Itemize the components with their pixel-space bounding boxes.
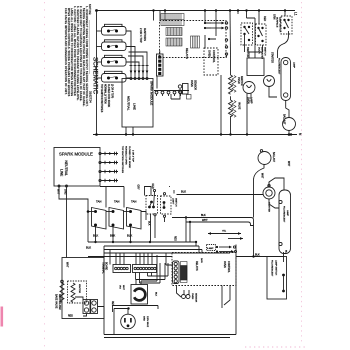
oven sensor RT1 <box>171 75 221 135</box>
wire risers from switch boxes <box>146 214 165 242</box>
wires oven switch to lamp <box>245 11 263 59</box>
pink registration right <box>301 2 303 345</box>
spark gap arrows <box>130 63 149 77</box>
ignitor switch S4 <box>97 71 127 82</box>
node N left <box>95 133 98 136</box>
wire bus stack <box>104 242 230 265</box>
ignitor switch S1 <box>97 24 127 35</box>
terminal strip 1 <box>113 265 131 273</box>
starter (bottom) <box>263 187 275 199</box>
label TAN 3 <box>131 200 136 204</box>
pink edge mark <box>1 307 4 327</box>
wires switches to spark gaps <box>126 31 147 78</box>
label BLK 2 <box>110 234 115 238</box>
spark module bottom pins <box>58 185 60 187</box>
label GRN <box>273 14 276 20</box>
surface lamp switch S7 <box>281 16 292 34</box>
spark module U2 <box>54 148 100 187</box>
spark module output pins <box>99 152 101 154</box>
power plug P1 <box>121 314 136 329</box>
label top ignition switches note <box>100 84 113 113</box>
spark module pins <box>130 78 132 80</box>
relay windings K1 <box>166 28 182 47</box>
oven control dashed box (top) <box>160 21 227 58</box>
label WHT wire <box>57 189 60 195</box>
door activated switch S6 <box>256 24 267 45</box>
connector J1 squares <box>157 54 164 76</box>
label WHT right <box>287 161 289 167</box>
fluorescent lamp FL1 <box>281 58 291 101</box>
wire loop box A <box>145 187 152 196</box>
oven control label box <box>204 48 218 75</box>
label WHT box <box>66 262 69 268</box>
wire bus to J1 <box>159 11 161 55</box>
label BLK 3 <box>127 234 132 238</box>
oven light switch S5 <box>241 23 253 45</box>
lamp DS3 <box>264 76 275 87</box>
connector blocks bottom-left <box>83 300 90 314</box>
ignitor dashed box <box>68 281 87 303</box>
label BLK 1 <box>93 234 98 238</box>
label N <box>298 133 302 136</box>
label TAN 2 <box>114 200 119 204</box>
wire ignitor feed <box>229 11 232 59</box>
pink registration bottom <box>245 346 308 348</box>
wire bus risers to terminal board <box>116 253 152 265</box>
fluorescent lamp (bottom) <box>279 190 291 254</box>
pink registration left <box>44 2 46 348</box>
label ORG wire <box>64 189 67 195</box>
oven sensor arrow <box>208 233 241 235</box>
spark module U1 (schematic) <box>122 79 153 128</box>
oven control dashed (bottom) <box>172 253 236 286</box>
node bus junctions <box>87 210 198 243</box>
wires control box <box>165 11 216 49</box>
light switch dashed box A <box>146 196 158 215</box>
ballast T1 <box>283 118 296 131</box>
label 240V <box>200 258 202 263</box>
wires under terminal board <box>136 273 169 284</box>
part number <box>89 91 93 103</box>
wire spark module down-left <box>59 187 88 258</box>
label relays (bottom) <box>195 261 198 271</box>
wire top right bottom-diagram <box>170 186 264 195</box>
wires spark module to N <box>126 127 133 135</box>
title rule <box>89 20 91 74</box>
amp fuse dashed <box>207 245 216 251</box>
surface ignitor switch SW2 <box>106 208 124 230</box>
terminal strip 2 <box>133 265 157 273</box>
label bake valve <box>55 294 62 310</box>
label RED <box>151 184 154 189</box>
wire N rail <box>93 134 297 136</box>
bake valve coil 2 <box>71 283 75 302</box>
wire L1 rail <box>97 10 296 12</box>
terminal board label <box>102 262 108 274</box>
wire lamp connections <box>269 178 284 208</box>
oven lamp DS1 <box>243 82 255 94</box>
label GRY <box>137 185 140 191</box>
oven ignitor E1 <box>229 58 233 100</box>
surface ignitor switch SW1 <box>88 208 106 230</box>
node L1 feed <box>95 9 98 12</box>
plug connectors <box>154 76 191 99</box>
oven sensor (bottom) <box>182 295 186 299</box>
label RED <box>263 16 266 21</box>
ignitor switch S3 <box>97 55 127 66</box>
relay coil (bottom) <box>181 262 188 283</box>
spark leads <box>101 152 118 182</box>
wire risers mid <box>154 11 239 58</box>
wire BLK WHT pair right <box>172 218 254 257</box>
wire risers middle-bottom <box>136 255 169 283</box>
node box pin <box>61 280 64 283</box>
label relays <box>185 48 189 59</box>
label BLK mid <box>155 292 157 297</box>
label BLK top <box>181 190 186 194</box>
connector (bottom) squares <box>173 261 180 284</box>
label BLK fl <box>255 254 260 257</box>
wire surface sw to starter <box>269 11 289 98</box>
bake unit box <box>62 258 104 319</box>
notice text block <box>64 4 91 107</box>
starter label (top) <box>271 52 274 63</box>
wire BLK to fluor switch <box>236 252 284 262</box>
label L1 <box>294 12 298 16</box>
label ignition note <box>121 146 134 173</box>
label RED plug <box>111 301 113 306</box>
oven ignitor horseshoe <box>131 285 148 305</box>
ballast (bottom) <box>258 152 271 165</box>
label RED bake <box>68 316 73 318</box>
fluorescent lamp switch (bottom) <box>267 257 287 300</box>
ignitor switch S2 <box>97 40 127 51</box>
surface ignitor switch SW3 <box>124 208 142 230</box>
wire left bus <box>96 11 98 135</box>
fuse F1 <box>191 36 200 48</box>
wire BLK bus <box>88 241 196 243</box>
schematic title <box>92 57 99 95</box>
bake valve coil 1 <box>60 283 64 302</box>
wire bottom bus <box>104 245 236 338</box>
wire ballast <box>254 164 270 217</box>
wires spark leads to switches <box>100 187 124 208</box>
relay contacts bottom <box>216 246 237 253</box>
wire switch row out <box>88 212 146 243</box>
clock box <box>247 58 264 76</box>
light switch dashed box B <box>161 196 172 214</box>
sensor arrow 2 <box>228 238 243 240</box>
oven valve V1 <box>229 100 233 135</box>
relay contact arrows <box>211 22 228 56</box>
label TAN 1 <box>96 200 101 204</box>
label 2 or 4 top ignitors <box>139 28 147 43</box>
plug enclosure <box>113 306 159 313</box>
relay contact grid <box>161 14 184 26</box>
